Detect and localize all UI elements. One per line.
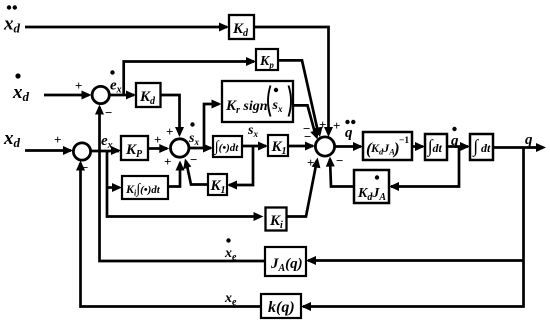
wire Ki bottom to sum4 (287, 155, 321, 217)
wire Ki integral to sum3 (164, 154, 185, 187)
svg-text:−1: −1 (399, 136, 409, 146)
wire JA(q) to sum1 bottom (95, 105, 265, 262)
resistor K1 lower block (208, 174, 227, 196)
node sdot label (188, 122, 199, 147)
op block KdJAdot (354, 170, 389, 203)
op block k(q) (261, 294, 301, 318)
wire integral1 to K1 upper (242, 142, 268, 151)
svg-text:+: + (54, 132, 61, 147)
op block JA(q) (265, 247, 306, 276)
summing junction sum2 (73, 143, 90, 160)
resistor K_d top block (229, 15, 254, 39)
node xe label (224, 291, 237, 308)
wire qdot branch down to KdJAdot (389, 147, 459, 192)
svg-text:−: − (105, 105, 112, 120)
wire Kp top to sum4 diagonal (278, 60, 323, 137)
svg-text:q: q (345, 125, 353, 141)
svg-text:+: + (166, 124, 173, 139)
wire KdJAdot to sum4 (326, 157, 354, 187)
wire KdJAinv to int1 (412, 142, 425, 151)
node xd0 label (3, 128, 21, 150)
wire ex branch to Ki integral (107, 183, 122, 192)
wire q feedback down (301, 148, 524, 312)
wire dt2 to output q (493, 143, 546, 152)
wire q feedback branch to JA(q) (306, 256, 524, 265)
svg-text:∫(•)dt: ∫(•)dt (214, 139, 240, 155)
svg-text:+: + (307, 155, 314, 170)
node xedot label (224, 238, 237, 263)
svg-text:Ki∫(•)dt: Ki∫(•)dt (125, 182, 161, 198)
wire KP to sum3 (148, 132, 169, 153)
svg-text:+: + (319, 117, 326, 132)
wire k(q) to sum2 bottom (76, 160, 261, 307)
op block Kr sign (222, 81, 293, 122)
resistor Ki bottom block (266, 208, 287, 232)
summing junction sum3 (171, 139, 189, 157)
wire sum3 to integral1 (189, 144, 213, 153)
op block KdJA inverse (363, 132, 412, 160)
wire sdot branch up to sign block (204, 100, 222, 149)
wire Kd2 to sum3 (161, 95, 185, 139)
svg-text:+: + (333, 118, 340, 133)
wire Kd1 to sum4 top (254, 27, 333, 137)
svg-text:−: − (336, 153, 343, 168)
resistor K1 upper block (268, 135, 288, 157)
resistor Ki integral block (122, 176, 168, 199)
svg-text:−: − (304, 129, 311, 144)
summing junction sum1 (92, 86, 109, 103)
svg-text:+: + (154, 132, 161, 147)
wire ex branch down (107, 151, 264, 221)
node qdot label (451, 127, 459, 149)
node ex label (101, 133, 113, 151)
wire sum2 to KP (91, 146, 121, 155)
svg-text:+: + (75, 78, 82, 93)
svg-text:JA(q): JA(q) (270, 256, 303, 274)
node sx label (247, 123, 258, 139)
node edot label (110, 70, 122, 95)
summing junction sum4 (315, 137, 334, 156)
node qdd label (345, 120, 355, 141)
wire xd1 to sum1 (44, 78, 92, 100)
resistor K_d left block (136, 83, 161, 107)
svg-text:k(q): k(q) (268, 299, 295, 316)
svg-text:q: q (525, 132, 533, 148)
wire edot branch up to Kp top (124, 57, 256, 95)
wire K1 upper to sum4 (288, 142, 315, 151)
wire sx branch down to K1 lower (227, 146, 253, 190)
wire K1 lower to sum3 (183, 152, 208, 185)
wire dt1 to dt2 (447, 142, 470, 151)
node xdd label (3, 5, 21, 35)
integrator dt2 (470, 134, 493, 160)
wire sign block to sum4 diagonal (293, 105, 319, 139)
svg-text:+: + (164, 154, 171, 169)
wire sum1 to Kd2 (109, 91, 136, 100)
wire xdd to Kd1 (25, 23, 229, 32)
integrator dt1 (425, 134, 447, 160)
resistor K_p top block (256, 49, 278, 70)
svg-text:−: − (190, 152, 197, 167)
svg-text:−: − (81, 160, 88, 175)
wire xd0 to sum2 (25, 132, 73, 155)
svg-text:Kr sign: Kr sign (225, 98, 268, 116)
wire sum4 to KdJA inverse (335, 142, 363, 151)
resistor K_P block (121, 136, 148, 160)
integrator block integral1 (213, 136, 242, 157)
node xd1 label (12, 73, 30, 104)
node q label (525, 132, 533, 148)
